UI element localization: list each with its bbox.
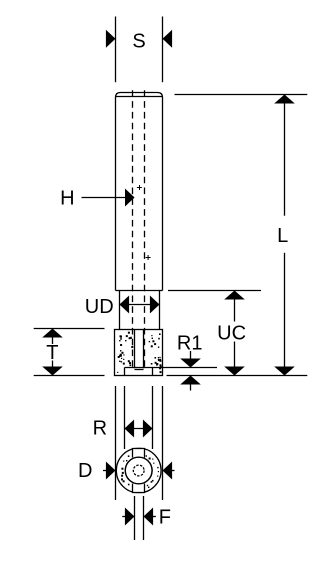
svg-text:H: H	[60, 188, 74, 210]
svg-text:D: D	[78, 460, 92, 482]
svg-text:UC: UC	[217, 323, 246, 345]
svg-text:F: F	[159, 507, 171, 529]
svg-text:R1: R1	[177, 333, 203, 355]
svg-text:UD: UD	[85, 296, 114, 318]
svg-text:L: L	[277, 225, 288, 247]
svg-text:R: R	[93, 417, 107, 439]
svg-text:S: S	[132, 30, 145, 52]
